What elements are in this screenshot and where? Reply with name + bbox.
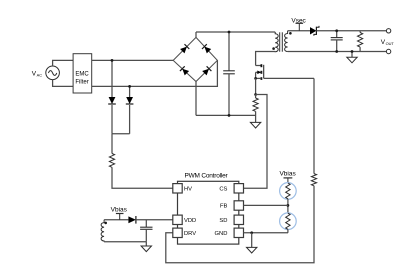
svg-text:AC: AC	[37, 72, 43, 77]
svg-text:Vsec: Vsec	[291, 17, 306, 24]
svg-text:PWM Controller: PWM Controller	[184, 172, 228, 179]
svg-text:DRV: DRV	[184, 231, 196, 237]
svg-text:GND: GND	[215, 231, 228, 237]
svg-text:Vbias: Vbias	[111, 206, 128, 213]
svg-text:CS: CS	[219, 187, 227, 193]
svg-text:VDD: VDD	[184, 218, 196, 224]
svg-text:OUT: OUT	[386, 41, 395, 46]
svg-text:FB: FB	[220, 204, 228, 210]
svg-text:Filter: Filter	[75, 80, 88, 86]
svg-text:SD: SD	[219, 218, 227, 224]
svg-text:Vbias: Vbias	[279, 171, 296, 178]
svg-text:EMC: EMC	[75, 72, 89, 78]
svg-text:HV: HV	[184, 187, 192, 193]
